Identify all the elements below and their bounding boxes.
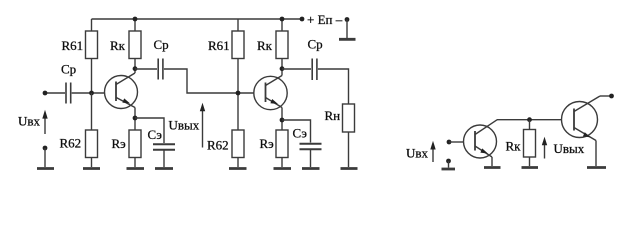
wire emitter Q2 to Ce2 — [282, 120, 311, 143]
node emitter Q2 — [280, 118, 285, 123]
wire collector Q1 to Cp2 — [135, 68, 157, 70]
wire Cp2 to base Q2 — [164, 69, 254, 93]
svg-text:Uвх: Uвх — [406, 145, 429, 160]
resistor Rk right — [524, 120, 536, 166]
ground emitter Q3 — [484, 166, 501, 169]
svg-text:R61: R61 — [208, 38, 230, 53]
ground under Re stage2 — [274, 167, 292, 170]
node rail right end — [300, 17, 305, 22]
svg-text:Сэ: Сэ — [293, 126, 308, 141]
transistor VT1 — [105, 73, 138, 109]
svg-text:Uвых: Uвых — [169, 117, 200, 132]
resistor Re (second stage) — [276, 130, 288, 167]
label Uin right — [406, 145, 429, 160]
node Rk junction right — [527, 117, 532, 122]
transistor VT4 — [562, 96, 601, 141]
resistor R62 (first stage, Rb2) — [86, 130, 98, 167]
capacitor Cp (input coupling) — [66, 83, 71, 104]
node on rail at Rk2 — [280, 17, 285, 22]
node collector Q2 — [280, 66, 285, 71]
svg-text:Rэ: Rэ — [112, 136, 127, 151]
svg-text:Uвх: Uвх — [18, 113, 41, 128]
svg-text:+ Еп –: + Еп – — [307, 12, 343, 27]
svg-text:Ср: Ср — [154, 37, 169, 52]
svg-text:Ср: Ср — [308, 37, 323, 52]
ground under R62 stage1 — [83, 167, 100, 170]
resistor Rk (first stage) — [129, 19, 141, 73]
wire emitter Q1 to Ce1 — [135, 118, 164, 143]
ground under Rn — [341, 167, 358, 170]
label Uout intermediate — [169, 117, 200, 132]
capacitor Cp (output coupling) — [312, 59, 317, 81]
svg-text:Rн: Rн — [325, 108, 341, 123]
ground input terminal — [37, 148, 54, 169]
wire emitter Q3 down — [491, 157, 493, 166]
resistor R62 (second stage, Rb2) — [232, 130, 244, 167]
ground under Ce1 — [155, 167, 173, 170]
ground under Ce2 — [302, 167, 320, 170]
wire Cp to base Q1 — [72, 92, 105, 94]
wire top supply rail — [92, 18, 303, 20]
node input terminal bottom — [43, 146, 48, 151]
ground right input — [442, 161, 456, 169]
ground emitter Q4 — [587, 166, 606, 169]
arrow Uout intermediate — [200, 103, 205, 148]
node right input bottom — [446, 159, 451, 164]
svg-text:Uвых: Uвых — [554, 141, 585, 156]
resistor Rk (second stage) — [276, 19, 288, 76]
node divider junction stage 1 — [89, 91, 94, 96]
resistor R61 (second stage, Rb1) — [232, 19, 244, 130]
ground under Re stage1 — [127, 167, 145, 170]
node base junction stage 2 — [236, 91, 241, 96]
node on rail at Rk1 — [133, 17, 138, 22]
ground supply minus — [339, 20, 356, 40]
svg-text:Rк: Rк — [506, 139, 522, 154]
svg-text:Rк: Rк — [257, 38, 273, 53]
resistor Rn (load) — [343, 104, 355, 167]
ground under Rk right — [522, 166, 539, 169]
transistor VT2 — [254, 76, 287, 110]
node right input top — [447, 140, 452, 145]
wire collector Q2 to Cp3 — [282, 68, 311, 70]
capacitor Cp (interstage coupling) — [158, 59, 163, 80]
wire emitter Q2 down — [281, 108, 283, 131]
wire collector Q3 to base Q4 — [497, 119, 562, 121]
svg-text:Сэ: Сэ — [148, 127, 163, 142]
node input terminal top — [43, 91, 48, 96]
ground under R62 stage2 — [229, 167, 247, 170]
svg-text:R61: R61 — [62, 38, 84, 53]
resistor Re (first stage) — [129, 130, 141, 167]
capacitor Ce (second stage bypass) — [300, 144, 322, 167]
wire input to Cp — [45, 92, 65, 94]
svg-text:Ср: Ср — [61, 62, 76, 77]
wire emitter Q1 down — [134, 108, 136, 131]
resistor R61 (first stage, Rb1) — [86, 19, 98, 93]
svg-text:Rк: Rк — [110, 38, 126, 53]
arrow Uin right — [430, 141, 435, 162]
arrow Uin left — [42, 110, 47, 134]
node collector Q1 — [133, 66, 138, 71]
transistor VT3 — [464, 120, 498, 158]
svg-text:R62: R62 — [207, 138, 229, 153]
arrow Uout right — [542, 137, 547, 159]
svg-text:R62: R62 — [60, 136, 82, 151]
svg-text:Rэ: Rэ — [260, 136, 275, 151]
node supply minus terminal — [345, 17, 350, 22]
node emitter Q1 — [133, 116, 138, 121]
label Uin left — [18, 113, 41, 128]
wire Cp3 to Rn — [318, 69, 349, 104]
capacitor Ce (first stage bypass) — [153, 144, 175, 167]
label Uout right — [554, 141, 585, 156]
wire emitter Q4 down — [595, 141, 597, 167]
wire divider to R62 stage1 — [91, 93, 93, 130]
node collector Q4 terminal — [609, 94, 614, 99]
wire right input to base Q3 — [449, 141, 464, 143]
wire collector Q4 to terminal — [600, 95, 610, 97]
